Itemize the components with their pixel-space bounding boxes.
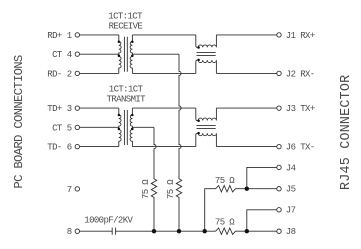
T1 secondary winding [130, 35, 132, 74]
svg-text:75 Ω: 75 Ω [215, 217, 235, 227]
J6 terminal [277, 144, 281, 148]
T1 primary dot lower [118, 54, 121, 57]
choke L1 bottom winding [196, 60, 217, 73]
wire choke L1 to J2 [216, 72, 276, 74]
svg-text:TD+: TD+ [47, 104, 62, 114]
wire T2 secondary CT to R1 [132, 126, 154, 128]
wire pin2 to transformer [80, 72, 119, 74]
T2 secondary dot lower [131, 128, 134, 131]
pin 3 terminal [75, 106, 79, 110]
svg-text:TRANSMIT: TRANSMIT [107, 95, 147, 105]
svg-text:RD-: RD- [47, 69, 61, 79]
svg-text:5: 5 [67, 123, 72, 133]
svg-text:1: 1 [67, 31, 72, 41]
T2 core [124, 110, 127, 145]
pin 2 terminal [75, 71, 79, 75]
svg-text:J4: J4 [286, 163, 296, 173]
resistor R3 75ohm horizontal upper [205, 186, 277, 232]
T1 core [124, 37, 127, 72]
J7 terminal [277, 208, 281, 212]
choke L1 top winding [196, 35, 217, 47]
svg-text:J7: J7 [286, 206, 296, 216]
T2 secondary dot upper [131, 114, 134, 117]
choke L1 top dot [197, 46, 200, 49]
pin 8 terminal [75, 229, 79, 233]
svg-text:J3 TX+: J3 TX+ [286, 104, 315, 114]
choke L2 top winding [196, 108, 217, 120]
svg-text:75 Ω: 75 Ω [141, 179, 151, 199]
J3 terminal [277, 106, 281, 110]
junction dot R1 on rail [152, 229, 156, 233]
T2 primary dot lower [118, 128, 121, 131]
choke L1 core [197, 52, 216, 55]
wire pin1 to transformer [80, 34, 119, 36]
resistor R4 75ohm horizontal lower [216, 228, 277, 234]
wire pin4 to transformer [80, 53, 119, 55]
svg-text:7: 7 [67, 185, 72, 195]
svg-text:TD-: TD- [47, 143, 61, 153]
wire J4 branch [247, 167, 277, 188]
T1 primary dot upper [118, 41, 121, 44]
resistor R2 75ohm vertical (RX CT) with hops over RX-/TX+/TX- wires [176, 54, 181, 231]
wire choke L1 to J1 [216, 34, 276, 36]
J2 terminal [277, 71, 281, 75]
J1 terminal [277, 33, 281, 37]
svg-text:J6 TX-: J6 TX- [286, 143, 315, 153]
J5 terminal [277, 187, 281, 191]
svg-text:8: 8 [67, 227, 72, 237]
svg-text:CT: CT [52, 50, 63, 60]
choke L2 bottom winding [196, 133, 217, 146]
svg-text:2: 2 [67, 69, 72, 79]
svg-text:75 Ω: 75 Ω [166, 179, 176, 199]
svg-text:J8: J8 [286, 227, 296, 237]
wire pin3 to transformer [80, 107, 119, 109]
svg-text:1CT:1CT: 1CT:1CT [109, 85, 144, 95]
junction dot J4 branch at R3 [245, 187, 249, 191]
pin 4 terminal [75, 52, 79, 56]
choke L1 bottom dot [197, 59, 200, 62]
svg-text:J2 RX-: J2 RX- [286, 69, 315, 79]
T2 secondary winding [130, 108, 132, 147]
transformer T2 TRANSMIT primary winding [119, 108, 121, 147]
svg-text:PC BOARD CONNECTIONS: PC BOARD CONNECTIONS [12, 55, 26, 189]
resistor R1 75ohm vertical (TX CT) with hop over TD- wire [151, 127, 156, 231]
svg-text:3: 3 [67, 104, 72, 114]
svg-text:RECEIVE: RECEIVE [109, 22, 143, 32]
wire pin6 to transformer [80, 146, 119, 148]
J4 terminal [277, 165, 281, 169]
svg-text:J1 RX+: J1 RX+ [286, 31, 315, 41]
wire T1 secondary bottom to choke L1 [132, 72, 195, 74]
svg-text:RD+: RD+ [47, 31, 62, 41]
svg-text:1CT:1CT: 1CT:1CT [108, 12, 143, 22]
wire choke L2 to J6 [216, 146, 276, 148]
svg-text:CT: CT [52, 123, 63, 133]
wire pin5 to transformer [80, 126, 119, 128]
T1 secondary dot upper [131, 41, 134, 44]
svg-text:RJ45 CONNECTOR: RJ45 CONNECTOR [339, 75, 354, 190]
pin 7 terminal [75, 187, 79, 191]
wire T1 secondary top to choke L1 [132, 34, 195, 36]
wire choke L2 to J3 [216, 107, 276, 109]
J8 terminal [277, 229, 281, 233]
pin 5 terminal [75, 125, 79, 129]
junction dot R2 on rail [177, 229, 181, 233]
svg-text:6: 6 [67, 143, 72, 153]
choke L2 top dot [197, 119, 200, 122]
wire T2 secondary top to choke L2 [132, 107, 195, 109]
junction dot R3 leg on rail [203, 229, 207, 233]
wire J7 branch [247, 210, 277, 231]
choke L2 bottom dot [197, 132, 200, 135]
pin 1 terminal [75, 33, 79, 37]
svg-text:75 Ω: 75 Ω [215, 176, 235, 186]
bottom rail wire [116, 230, 216, 232]
T1 secondary dot lower [131, 54, 134, 57]
svg-text:1000pF/2KV: 1000pF/2KV [84, 216, 133, 226]
pin 6 terminal [75, 144, 79, 148]
svg-text:J5: J5 [286, 185, 296, 195]
choke L2 core [197, 126, 216, 129]
T2 primary dot upper [118, 114, 121, 117]
capacitor C1 1000pF/2KV plates [112, 228, 115, 235]
junction dot J7 branch on rail [245, 229, 249, 233]
wire pin8 to capacitor C1 [80, 230, 112, 232]
transformer T1 RECEIVE primary winding [119, 35, 121, 74]
svg-text:4: 4 [67, 50, 72, 60]
wire T2 secondary bottom to choke L2 [132, 146, 195, 148]
wire T1 secondary CT to R2 [132, 53, 179, 55]
